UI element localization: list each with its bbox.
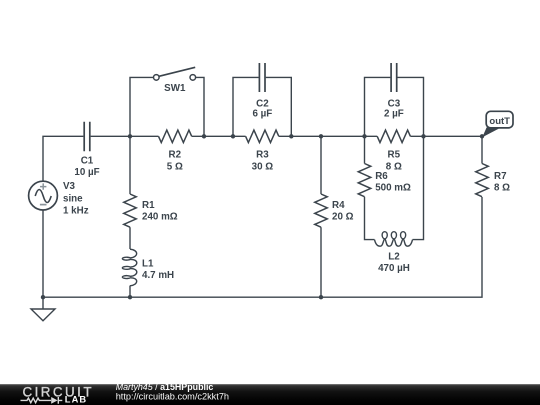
svg-text:R2: R2 (169, 150, 182, 161)
wire: C1 right plate to node A (91, 135, 130, 137)
label C1 10 µF (74, 155, 99, 178)
svg-text:5 Ω: 5 Ω (167, 161, 183, 172)
wire: C2 left leg (233, 77, 259, 136)
svg-text:R5: R5 (388, 150, 401, 161)
inductor L2 (375, 232, 413, 247)
label V3 sine 1 kHz (63, 181, 89, 217)
label R3 30 Ω (252, 150, 274, 173)
label L1 4.7 mH (142, 259, 174, 282)
junction V3 / ground rail (41, 295, 45, 299)
junction at node A (C1/SW1/R2/R1) (128, 134, 132, 138)
label SW1 (164, 83, 186, 94)
label C3 2 µF (384, 99, 404, 120)
svg-text:R3: R3 (256, 150, 269, 161)
svg-text:V3: V3 (63, 181, 76, 192)
capacitor C2 (259, 63, 265, 92)
wire: node A to R2 left lead (130, 135, 159, 137)
svg-text:C1: C1 (81, 155, 94, 166)
wire: switch SW1 right leg (196, 77, 204, 136)
junction SW1 right leg / R2 / wire (202, 134, 206, 138)
svg-text:outT: outT (489, 116, 510, 127)
label R7 8 Ω (494, 171, 510, 193)
svg-text:http://circuitlab.com/c2kkt7h: http://circuitlab.com/c2kkt7h (116, 392, 229, 402)
svg-text:L1: L1 (142, 259, 154, 270)
wire: V3 bottom down to ground rail (42, 210, 44, 297)
label L2 470 µH (378, 251, 410, 274)
svg-text:R6: R6 (375, 171, 388, 182)
switch SW1 (154, 67, 196, 80)
junction R4 bottom / ground rail (319, 295, 323, 299)
resistor R5 (377, 130, 410, 143)
wire: R2 right lead to R3 left lead (192, 135, 246, 137)
svg-text:4.7 mH: 4.7 mH (142, 270, 174, 281)
ground (31, 297, 55, 321)
svg-text:500 mΩ: 500 mΩ (375, 182, 411, 193)
junction C3 left leg / R5 / R6 (362, 134, 366, 138)
wire: R4 branch leads (320, 136, 322, 297)
capacitor C1 (84, 122, 90, 151)
footer credit line (116, 382, 229, 402)
svg-text:2 µF: 2 µF (384, 108, 404, 119)
junction C2 left leg / main line (231, 134, 235, 138)
label R6 500 mΩ (375, 171, 411, 193)
wire: R5 right lead to node outT (410, 135, 482, 137)
wire: V3 top up and right to C1 left plate (43, 136, 83, 181)
junction node outT / R7 (480, 134, 484, 138)
label R1 240 mΩ (142, 200, 178, 223)
svg-text:10 µF: 10 µF (74, 167, 99, 178)
CircuitLab logo (21, 384, 94, 404)
wire: R1 leads (129, 136, 131, 249)
inductor L1 (122, 249, 136, 286)
label R4 20 Ω (332, 200, 354, 223)
label C2 6 µF (252, 99, 272, 120)
node outT flag (482, 111, 513, 137)
junction C2 right leg / main line (289, 134, 293, 138)
label R2 5 Ω (167, 150, 183, 173)
svg-text:R1: R1 (142, 200, 155, 211)
junction L1 bottom / ground rail (128, 295, 132, 299)
capacitor C3 (391, 63, 397, 92)
wire: R7 top lead (481, 136, 483, 163)
svg-text:R4: R4 (332, 200, 345, 211)
resistor R3 (246, 130, 279, 143)
svg-text:30 Ω: 30 Ω (252, 161, 274, 172)
resistor R7 (476, 164, 489, 197)
wire: C2 right leg (266, 77, 292, 136)
wire: R6 top lead (364, 136, 366, 163)
resistor R4 (315, 194, 328, 227)
svg-text:LAB: LAB (65, 395, 87, 405)
wire: R6 bottom lead down to L2 left (365, 197, 375, 240)
wire: R3 right lead to R5 left lead (279, 135, 377, 137)
svg-text:R7: R7 (494, 171, 507, 182)
svg-text:SW1: SW1 (164, 83, 186, 94)
wire: switch SW1 left leg (130, 77, 153, 136)
wire: C3 right leg (397, 77, 423, 136)
resistor R6 (358, 164, 371, 197)
resistor R2 (159, 130, 192, 143)
voltage source V3 (29, 181, 58, 210)
svg-text:20 Ω: 20 Ω (332, 212, 354, 223)
wire: C3 left leg (365, 77, 391, 136)
svg-text:8 Ω: 8 Ω (494, 182, 510, 193)
junction R4 top / main line (319, 134, 323, 138)
footer bar (0, 384, 540, 405)
svg-text:470 µH: 470 µH (378, 263, 410, 274)
resistor R1 (124, 194, 137, 227)
svg-text:sine: sine (63, 193, 83, 204)
svg-text:Martyh45 / a15HPpublic: Martyh45 / a15HPpublic (116, 382, 214, 392)
wire: L1 bottom lead (129, 286, 131, 298)
wire: bottom ground rail and right riser to R7 (43, 197, 482, 297)
svg-text:240 mΩ: 240 mΩ (142, 212, 178, 223)
svg-text:1 kHz: 1 kHz (63, 206, 89, 217)
svg-text:6 µF: 6 µF (252, 108, 272, 119)
label R5 8 Ω (386, 150, 402, 173)
svg-text:L2: L2 (388, 251, 400, 262)
svg-text:8 Ω: 8 Ω (386, 161, 402, 172)
junction C3 right leg / L2 / main line (421, 134, 425, 138)
wire: L2 right lead up to main line (413, 136, 424, 239)
